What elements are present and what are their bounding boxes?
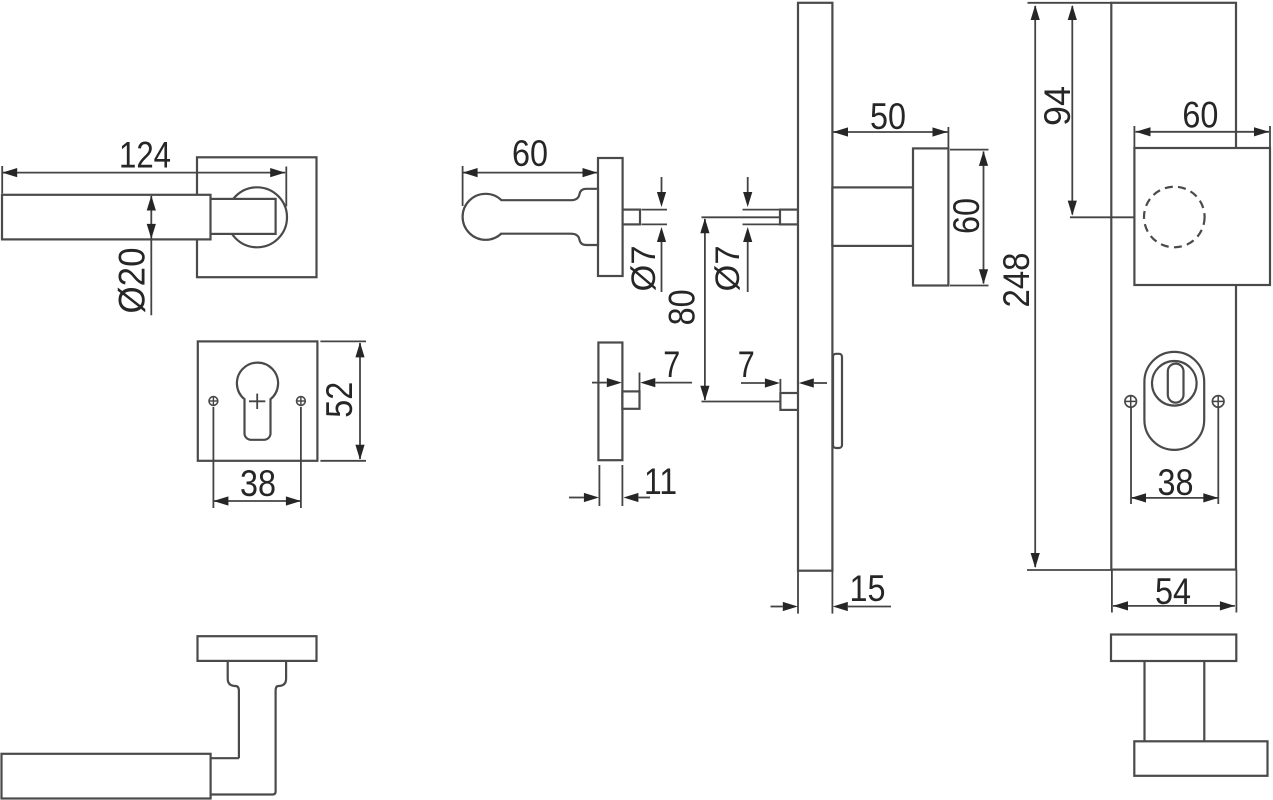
screw left — [209, 397, 218, 406]
svg-text:60: 60 — [1182, 95, 1218, 136]
lever front: handle bar — [2, 195, 211, 240]
dimension 38 right — [1131, 408, 1218, 504]
dimension 15 — [771, 568, 892, 614]
knob side: spindle pin — [623, 210, 640, 225]
lever side: neck and stem — [211, 661, 287, 795]
knob side: ball — [463, 194, 509, 240]
key rose side: spindle pin — [622, 391, 639, 408]
knob side: rose plate — [598, 158, 623, 276]
key rose front: square plate — [198, 341, 318, 460]
svg-text:54: 54 — [1155, 571, 1191, 612]
svg-text:60: 60 — [512, 133, 548, 174]
dimension 60 top right — [1134, 95, 1270, 148]
lever front: square rose — [197, 157, 317, 277]
svg-text:7: 7 — [738, 344, 755, 385]
oval cylinder rosette — [1144, 352, 1204, 450]
dimension 80 — [661, 217, 780, 401]
svg-text:38: 38 — [240, 463, 276, 504]
svg-text:7: 7 — [663, 344, 680, 385]
key rose side: plate — [598, 343, 622, 461]
dimension 94 — [1037, 5, 1134, 217]
lever side: handle bar — [2, 754, 211, 799]
screw right oval — [1212, 396, 1224, 408]
svg-text:50: 50 — [870, 96, 906, 137]
keyhole center cross — [249, 394, 265, 409]
svg-text:Ø7: Ø7 — [709, 246, 747, 292]
dimension 54 — [1112, 570, 1237, 613]
screw left oval — [1125, 396, 1137, 408]
svg-text:38: 38 — [1158, 462, 1194, 503]
dimension 7 right — [738, 344, 827, 392]
svg-text:52: 52 — [319, 382, 360, 418]
dimension Ø7 left — [625, 177, 667, 292]
dimension 60 middle — [463, 133, 598, 206]
lever side: rose plate — [198, 636, 317, 661]
cylinder keyway slot — [1168, 364, 1184, 403]
svg-text:Ø20: Ø20 — [112, 248, 153, 314]
svg-text:124: 124 — [119, 135, 171, 176]
svg-text:Ø7: Ø7 — [625, 246, 663, 292]
euro cylinder keyhole — [237, 363, 278, 440]
svg-text:248: 248 — [996, 253, 1037, 308]
knob bottom: knob disc — [1134, 741, 1267, 776]
svg-text:15: 15 — [850, 568, 886, 609]
svg-text:80: 80 — [661, 289, 702, 325]
dimension 124 — [2, 135, 286, 207]
lever front: round boss circle — [227, 187, 287, 247]
knob bottom: stem — [1145, 661, 1205, 741]
lever front: neck — [210, 199, 275, 234]
dimension 7 left — [592, 344, 692, 392]
backplate side: plate — [798, 3, 832, 571]
svg-text:60: 60 — [946, 198, 987, 234]
dimension 60 right — [946, 150, 989, 286]
knob bottom: rose plate — [1111, 635, 1236, 662]
top extension line — [1028, 2, 1112, 4]
backplate side: knob stem — [832, 187, 913, 246]
screw right — [297, 397, 306, 406]
plate pin upper — [780, 210, 798, 225]
backplate front: square knob module — [1134, 148, 1270, 285]
dimension 11 — [569, 461, 677, 506]
dimension Ø7 right — [709, 177, 779, 292]
knob dashed circle — [1144, 187, 1205, 248]
dimension 38 left — [213, 407, 301, 508]
lever side: stem-bar joint line — [211, 757, 239, 759]
dimension Ø20 — [112, 196, 156, 316]
backplate side: cylinder cover strip — [833, 354, 842, 448]
plate pin lower — [780, 393, 798, 410]
backplate front: plate — [1111, 3, 1236, 570]
dimension 52 — [319, 341, 366, 460]
svg-text:11: 11 — [644, 461, 677, 502]
svg-text:94: 94 — [1037, 86, 1078, 126]
dimension 50 — [833, 96, 948, 148]
dimension 248 — [996, 5, 1112, 570]
backplate side: knob disc — [913, 148, 948, 285]
knob side: stem and collar — [501, 189, 598, 245]
cylinder circle — [1152, 361, 1197, 406]
